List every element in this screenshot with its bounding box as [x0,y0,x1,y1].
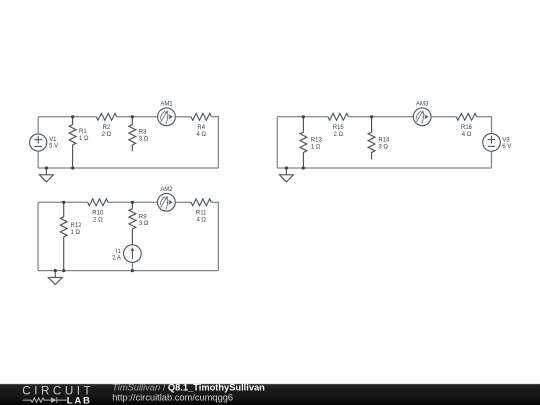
ground (circuit 2) [48,271,62,285]
ammeter AM1 [158,108,176,126]
svg-text:R16: R16 [461,125,473,131]
svg-text:R14: R14 [378,137,390,143]
wire: circuit1 left rail bottom [37,151,39,168]
node: R12 bottom junction [62,269,65,272]
svg-text:R12: R12 [71,223,83,229]
node: R1 top junction [71,115,74,118]
svg-text:3 Ω: 3 Ω [139,136,149,142]
wire: circuit1 top rail right segment [175,116,191,118]
wire: circuit1 top-right corner + right rail [211,117,218,168]
voltage source V1 [30,134,47,151]
svg-text:V1: V1 [49,137,57,143]
svg-text:AM3: AM3 [416,101,429,107]
wire: circuit3 left rail [276,117,278,168]
resistor R13 [300,117,307,168]
resistor R12 [60,202,67,270]
svg-text:3 Ω: 3 Ω [378,144,388,150]
wire: circuit3 top rail left segment [277,116,328,118]
resistor R4 [191,113,211,120]
wire: circuit3 top rail mid segment [348,116,413,118]
node: R13 bottom junction [302,166,305,169]
svg-text:V3: V3 [502,137,510,143]
node: R13 top junction [302,115,305,118]
ammeter AM2 [158,193,176,211]
svg-text:4 Ω: 4 Ω [462,132,472,138]
svg-text:R15: R15 [333,125,345,131]
wire: circuit2 bottom rail [38,270,218,272]
svg-text:2 A: 2 A [112,256,121,262]
svg-text:R11: R11 [196,211,207,217]
svg-text:R2: R2 [103,125,111,131]
resistor R1 [69,117,76,168]
wire: circuit1 bottom rail [38,167,218,169]
svg-text:2 Ω: 2 Ω [333,132,343,138]
node: I1 bottom junction [131,269,134,272]
svg-text:2 Ω: 2 Ω [102,132,112,138]
svg-text:http://circuitlab.com/cumqgg6: http://circuitlab.com/cumqgg6 [112,392,233,402]
wire: circuit1 left rail top [37,117,39,134]
logo diode [51,397,57,403]
wire: circuit3 top-right corner [477,117,492,134]
svg-text:2 Ω: 2 Ω [93,217,103,223]
wire: circuit2 top rail right segment [175,201,191,203]
svg-text:3 Ω: 3 Ω [139,221,149,227]
svg-text:TimSullivan / Q8.1_TimothySull: TimSullivan / Q8.1_TimothySullivan [112,382,265,392]
wire: circuit3 top rail right segment [431,116,456,118]
wire: circuit2 top-right corner + right rail [211,202,218,270]
wire: circuit2 left rail [37,202,39,270]
current source I1 [124,245,142,263]
resistor R16 [456,113,476,120]
resistor R15 [328,113,348,120]
ground (circuit 3) [279,168,293,182]
wire: circuit2 top rail mid segment [108,201,158,203]
svg-text:4 Ω: 4 Ω [196,217,206,223]
ammeter AM3 [413,108,431,126]
svg-text:LAB: LAB [67,395,92,405]
wire: circuit3 right rail bottom [491,151,493,168]
node: R3 top junction [131,115,134,118]
wire: circuit3 bottom rail [277,167,491,169]
resistor R3 (floating bottom) [129,117,136,151]
wire: circuit2 top rail left segment [38,201,88,203]
ground (circuit 1) [39,168,53,182]
wire: circuit1 top rail left segment [38,116,96,118]
svg-text:R9: R9 [139,214,147,220]
svg-text:R13: R13 [311,138,323,144]
node: R12 top junction [62,201,65,204]
resistor R14 (floating bottom) [368,117,375,160]
logo schematic wire with resistor [23,398,51,402]
node: R9 top junction [131,201,134,204]
svg-text:I1: I1 [116,249,122,255]
svg-text:AM1: AM1 [160,101,173,107]
node: ground junction circuit1 [45,166,48,169]
svg-text:AM2: AM2 [160,187,173,193]
svg-text:4 Ω: 4 Ω [196,132,206,138]
node: R14 top junction [370,115,373,118]
wire: circuit1 top rail mid segment [117,116,158,118]
svg-text:1 Ω: 1 Ω [311,144,321,150]
node: R1 bottom junction [71,166,74,169]
wire: I1 bottom lead [131,262,133,270]
resistor R10 [88,199,108,206]
node: ground junction circuit2 [54,269,57,272]
resistor R9 [129,202,136,245]
svg-text:1 Ω: 1 Ω [79,136,89,142]
resistor R11 [191,199,211,206]
svg-text:R10: R10 [92,211,104,217]
svg-text:R3: R3 [139,129,147,135]
svg-text:5 V: 5 V [49,143,58,149]
node: ground junction circuit3 [285,166,288,169]
svg-text:6 V: 6 V [502,144,511,150]
svg-text:1 Ω: 1 Ω [71,230,81,236]
svg-text:R1: R1 [79,129,87,135]
resistor R2 [96,113,116,120]
voltage source V3 [483,134,501,152]
svg-text:R4: R4 [197,125,205,131]
